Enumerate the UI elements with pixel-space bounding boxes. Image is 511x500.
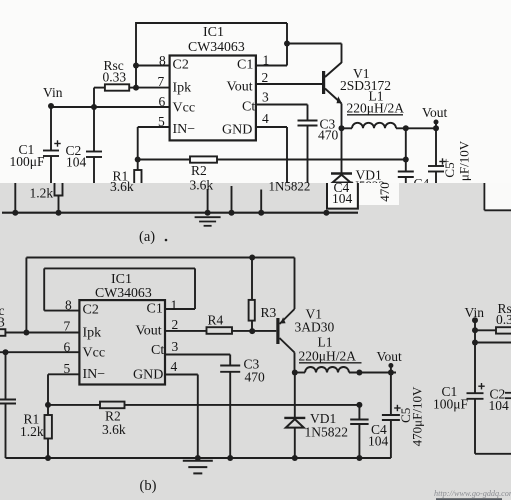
svg-text:http://www.go-gddq.com: http://www.go-gddq.com	[434, 489, 511, 498]
svg-text:C1: C1	[147, 302, 163, 317]
svg-text:4: 4	[171, 359, 178, 374]
svg-text:Ipk: Ipk	[173, 81, 192, 96]
svg-text:470: 470	[377, 182, 392, 202]
svg-text:6: 6	[159, 94, 166, 109]
svg-text:104: 104	[368, 434, 389, 449]
svg-text:2: 2	[172, 317, 179, 332]
svg-text:0.3: 0.3	[496, 312, 511, 327]
svg-text:Vout: Vout	[136, 324, 162, 339]
svg-text:(a): (a)	[139, 229, 155, 245]
svg-text:GND: GND	[133, 368, 163, 383]
svg-text:3: 3	[262, 90, 269, 105]
svg-text:470: 470	[245, 370, 266, 385]
svg-text:2: 2	[262, 70, 269, 85]
svg-text:Vout: Vout	[422, 105, 448, 120]
svg-text:7: 7	[64, 319, 71, 334]
svg-text:1N5822: 1N5822	[305, 425, 349, 440]
svg-text:220μH/2A: 220μH/2A	[299, 349, 357, 364]
svg-text:104: 104	[489, 398, 510, 413]
svg-text:1: 1	[171, 298, 178, 313]
svg-text:8: 8	[65, 298, 72, 313]
svg-text:R2: R2	[191, 163, 207, 178]
svg-text:3: 3	[0, 315, 5, 330]
svg-text:6: 6	[64, 340, 71, 355]
svg-text:3: 3	[172, 339, 179, 354]
svg-text:0.33: 0.33	[103, 70, 127, 85]
svg-text:Vout: Vout	[227, 80, 253, 95]
svg-text:3.6k: 3.6k	[110, 179, 134, 194]
svg-text:Ct: Ct	[151, 343, 164, 358]
svg-text:GND: GND	[222, 123, 252, 138]
svg-text:(b): (b)	[140, 478, 157, 494]
svg-text:IC1: IC1	[203, 25, 224, 40]
svg-text:1: 1	[263, 53, 270, 68]
svg-text:3.6k: 3.6k	[102, 422, 126, 437]
svg-text:IN−: IN−	[83, 367, 106, 382]
svg-text:104: 104	[66, 155, 87, 170]
svg-text:R4: R4	[208, 313, 224, 328]
svg-text:IN−: IN−	[173, 122, 196, 137]
svg-text:5: 5	[64, 361, 71, 376]
svg-text:L1: L1	[318, 335, 333, 350]
svg-text:100μF: 100μF	[433, 397, 468, 412]
svg-text:CW34063: CW34063	[95, 285, 152, 300]
svg-text:1.2k: 1.2k	[30, 186, 54, 201]
svg-text:C1: C1	[237, 58, 253, 73]
svg-text:5: 5	[158, 114, 165, 129]
svg-text:R3: R3	[261, 305, 277, 320]
svg-text:Ct: Ct	[242, 100, 255, 115]
svg-text:7: 7	[158, 74, 165, 89]
svg-text:1N5822: 1N5822	[269, 179, 311, 194]
svg-text:104: 104	[332, 191, 353, 206]
svg-text:470μF/10V: 470μF/10V	[409, 386, 424, 446]
svg-text:C2: C2	[173, 58, 189, 73]
svg-text:C2: C2	[83, 303, 99, 318]
svg-text:μF/10V: μF/10V	[457, 140, 472, 181]
svg-text:4: 4	[262, 111, 269, 126]
svg-text:Vin: Vin	[43, 85, 63, 100]
svg-text:CW34063: CW34063	[188, 39, 245, 54]
svg-text:Vcc: Vcc	[173, 101, 196, 116]
svg-text:Vout: Vout	[377, 349, 403, 364]
svg-text:1.2k: 1.2k	[20, 424, 44, 439]
svg-text:100μF: 100μF	[10, 154, 45, 169]
svg-text:3.6k: 3.6k	[190, 178, 214, 193]
svg-text:470: 470	[318, 128, 339, 143]
svg-text:C5: C5	[442, 162, 457, 177]
svg-text:Vcc: Vcc	[83, 346, 106, 361]
svg-text:Ipk: Ipk	[83, 326, 102, 341]
svg-text:220μH/2A: 220μH/2A	[347, 101, 405, 116]
svg-text:8: 8	[159, 53, 166, 68]
svg-text:3AD30: 3AD30	[295, 320, 335, 335]
